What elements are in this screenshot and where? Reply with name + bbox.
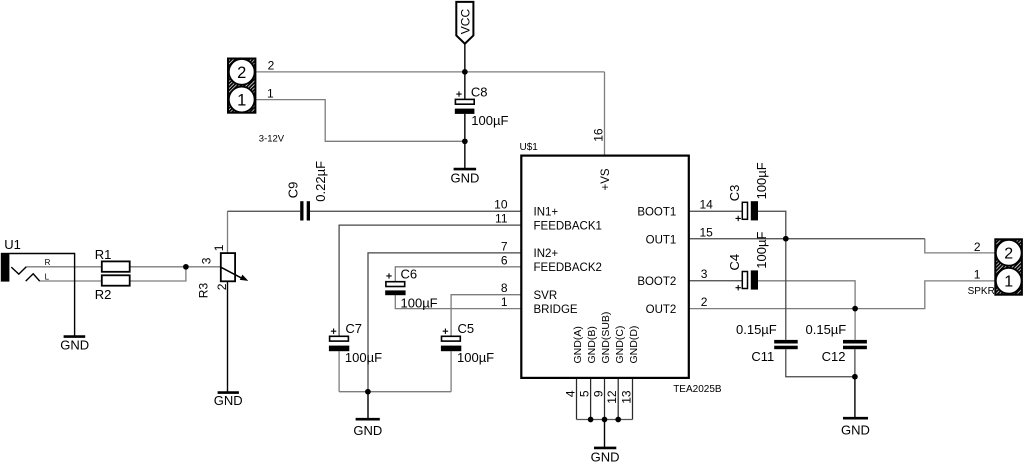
node gnd bus junction pin12 xyxy=(615,417,621,423)
wire IC bottom pin 5 xyxy=(590,378,592,420)
svg-text:FEEDBACK1: FEEDBACK1 xyxy=(534,221,602,233)
svg-text:R2: R2 xyxy=(95,287,112,302)
wire C11 bottom xyxy=(786,349,855,377)
svg-text:0.22µF: 0.22µF xyxy=(313,161,328,202)
wire FEEDBACK1 net to C7 xyxy=(339,225,521,336)
capacitor C4 xyxy=(727,232,769,291)
wire pin16 vertical xyxy=(604,72,606,156)
svg-text:0.15µF: 0.15µF xyxy=(806,322,847,337)
svg-text:C8: C8 xyxy=(471,84,488,99)
svg-text:+VS: +VS xyxy=(600,168,612,190)
node VCC junction xyxy=(462,69,468,75)
svg-text:R: R xyxy=(45,258,51,267)
wire R2 to junction xyxy=(130,267,186,281)
wire gnd stub below C12 xyxy=(854,377,856,419)
capacitor C5 xyxy=(441,321,494,365)
svg-text:GND: GND xyxy=(450,171,479,186)
svg-text:2: 2 xyxy=(701,295,708,309)
svg-text:14: 14 xyxy=(700,198,714,212)
ground under C12 xyxy=(841,418,870,438)
svg-text:100µF: 100µF xyxy=(754,162,769,199)
svg-text:2: 2 xyxy=(268,58,275,72)
wire VCC net top horizontal xyxy=(26,72,995,392)
svg-text:SVR: SVR xyxy=(534,290,558,302)
node C11/C12 bottom junction xyxy=(852,374,858,380)
wire BRIDGE net to C6 bottom xyxy=(395,295,521,309)
svg-text:13: 13 xyxy=(620,390,634,404)
svg-text:C7: C7 xyxy=(345,321,362,336)
wire IN2+ net to gnd bus xyxy=(368,253,521,392)
svg-text:3: 3 xyxy=(200,257,214,264)
wire IC bottom pin 9 xyxy=(604,378,606,420)
wire gnd stub below IC pins xyxy=(604,420,606,448)
svg-text:10: 10 xyxy=(494,198,508,212)
node OUT1/C3/C11 junction xyxy=(783,236,789,242)
svg-text:BOOT1: BOOT1 xyxy=(637,207,676,219)
wire C4 to OUT2/C12 xyxy=(758,281,855,340)
svg-text:OUT1: OUT1 xyxy=(646,234,677,246)
wire jack L to R2 xyxy=(40,280,102,282)
wire IN1+ net (R3/C9 to pin10) xyxy=(228,211,925,419)
svg-text:GND(C): GND(C) xyxy=(614,326,626,364)
wire BOOT1 to C3 xyxy=(689,210,742,212)
svg-text:C5: C5 xyxy=(458,321,475,336)
svg-text:GND: GND xyxy=(591,450,620,465)
svg-text:IN2+: IN2+ xyxy=(534,248,559,260)
wire OUT1 to SPKR pin2 xyxy=(925,239,996,253)
audio jack U1 xyxy=(1,237,51,282)
node gnd bus junction (C7/C5) xyxy=(365,389,371,395)
connector SPKR xyxy=(968,239,1022,296)
svg-text:2: 2 xyxy=(237,64,246,82)
capacitor C9 xyxy=(285,161,328,221)
svg-text:SPKR: SPKR xyxy=(968,286,995,297)
svg-text:9: 9 xyxy=(592,390,606,397)
wire OUT1 net xyxy=(689,238,925,240)
svg-text:L: L xyxy=(45,273,50,282)
svg-text:4: 4 xyxy=(564,390,578,397)
svg-text:FEEDBACK2: FEEDBACK2 xyxy=(534,262,602,274)
connector X1 (power input) xyxy=(228,58,285,144)
node OUT2/C4/C12 junction xyxy=(852,306,858,312)
node gnd bus junction pin9 xyxy=(602,417,608,423)
svg-text:C9: C9 xyxy=(285,182,300,199)
wire IC bottom pin 12 xyxy=(617,378,619,420)
wire C5 bottom to gnd bus xyxy=(450,351,452,392)
svg-text:1: 1 xyxy=(974,268,981,282)
resistor R2 xyxy=(95,275,130,302)
svg-text:R1: R1 xyxy=(95,247,112,262)
wire R1 to R3 pin3 xyxy=(130,266,221,268)
svg-text:TEA2025B: TEA2025B xyxy=(673,384,722,395)
wire R3 pin2 to GND xyxy=(227,281,229,392)
wire SVR net to C5 xyxy=(451,295,521,337)
svg-text:11: 11 xyxy=(495,212,508,226)
svg-text:5: 5 xyxy=(578,390,592,397)
svg-text:12: 12 xyxy=(605,390,619,404)
wire gnd stub below bus xyxy=(367,392,369,420)
svg-text:100µF: 100µF xyxy=(401,295,438,310)
svg-text:100µF: 100µF xyxy=(754,232,769,269)
svg-text:OUT2: OUT2 xyxy=(646,304,677,316)
capacitor C12 xyxy=(806,322,867,364)
wire IC bottom pin 13 xyxy=(632,378,634,420)
capacitor C7 xyxy=(329,321,382,365)
svg-text:GND(D): GND(D) xyxy=(628,326,640,364)
svg-text:R3: R3 xyxy=(197,283,211,299)
wire C12 bottom xyxy=(854,349,856,377)
wire IC bottom pin 4 xyxy=(576,378,578,420)
svg-text:1: 1 xyxy=(501,295,508,309)
svg-text:16: 16 xyxy=(592,128,606,142)
svg-text:GND: GND xyxy=(841,423,870,438)
svg-text:100µF: 100µF xyxy=(457,350,494,365)
ground under C8 xyxy=(450,169,479,185)
svg-text:U$1: U$1 xyxy=(520,142,539,153)
jack L contact xyxy=(26,274,40,281)
ground under R3 xyxy=(214,393,243,409)
svg-text:7: 7 xyxy=(501,239,508,253)
wire C3 to OUT1/C11 xyxy=(758,211,786,340)
svg-text:GND(A): GND(A) xyxy=(572,326,584,363)
svg-text:100µF: 100µF xyxy=(471,113,508,128)
svg-text:BOOT2: BOOT2 xyxy=(637,276,676,288)
svg-text:C3: C3 xyxy=(727,185,742,202)
svg-text:C11: C11 xyxy=(751,349,774,364)
supply VCC xyxy=(456,2,473,44)
svg-text:GND: GND xyxy=(214,393,243,408)
svg-text:2: 2 xyxy=(215,283,229,290)
node gnd bus junction pin5 xyxy=(588,417,594,423)
svg-text:U1: U1 xyxy=(4,237,21,252)
svg-text:C4: C4 xyxy=(727,254,742,271)
svg-text:1: 1 xyxy=(1004,274,1013,291)
op-amp IC U$1 TEA2025B xyxy=(494,128,722,404)
wire C9 left to R3 pin1 vertical xyxy=(227,211,229,253)
svg-text:BRIDGE: BRIDGE xyxy=(534,304,578,316)
svg-text:GND(SUB): GND(SUB) xyxy=(600,312,612,364)
svg-text:2: 2 xyxy=(1004,246,1013,263)
node C8 minus junction xyxy=(462,138,468,144)
svg-text:1: 1 xyxy=(237,91,246,109)
ground under jack xyxy=(60,337,89,353)
wire jack R to R1 xyxy=(26,266,102,268)
svg-text:C12: C12 xyxy=(822,349,846,364)
node R1/R2 mix junction xyxy=(183,264,189,270)
capacitor C8 xyxy=(455,84,509,128)
wire connector pin1 net xyxy=(256,100,464,142)
wire OUT2 net xyxy=(689,281,996,309)
svg-text:2: 2 xyxy=(974,240,981,254)
capacitor C6 xyxy=(385,266,437,310)
svg-text:GND(B): GND(B) xyxy=(586,326,598,363)
wire VCC-C8-GND vertical column xyxy=(9,44,855,448)
ground under IC pins xyxy=(591,448,620,465)
svg-text:0.15µF: 0.15µF xyxy=(736,322,777,337)
wire BOOT2 to C4 xyxy=(689,280,742,282)
jack R contact xyxy=(11,267,26,274)
svg-text:1: 1 xyxy=(267,86,274,100)
svg-text:3-12V: 3-12V xyxy=(259,133,285,144)
potentiometer R3 xyxy=(197,244,249,298)
svg-text:100µF: 100µF xyxy=(345,350,382,365)
svg-text:3: 3 xyxy=(701,267,708,281)
capacitor C3 xyxy=(727,162,769,221)
wire C7 bottom to gnd bus xyxy=(338,351,340,392)
svg-text:15: 15 xyxy=(700,226,714,240)
wire gnd bus under IC xyxy=(577,419,633,421)
svg-text:C6: C6 xyxy=(401,266,418,281)
svg-text:8: 8 xyxy=(501,281,508,295)
resistor R1 xyxy=(95,247,130,272)
wire gnd bus C7-C5 xyxy=(339,391,451,393)
svg-text:GND: GND xyxy=(353,423,382,438)
svg-text:VCC: VCC xyxy=(458,9,472,35)
svg-text:1: 1 xyxy=(212,244,226,251)
capacitor C11 xyxy=(736,322,798,364)
ground under C5/C7 bus xyxy=(353,419,382,438)
svg-text:IN1+: IN1+ xyxy=(534,207,559,219)
wire FEEDBACK2 net to C6 top xyxy=(395,267,521,282)
svg-text:GND: GND xyxy=(60,338,89,353)
svg-text:6: 6 xyxy=(501,253,508,267)
wire jack sleeve to GND xyxy=(9,254,74,337)
